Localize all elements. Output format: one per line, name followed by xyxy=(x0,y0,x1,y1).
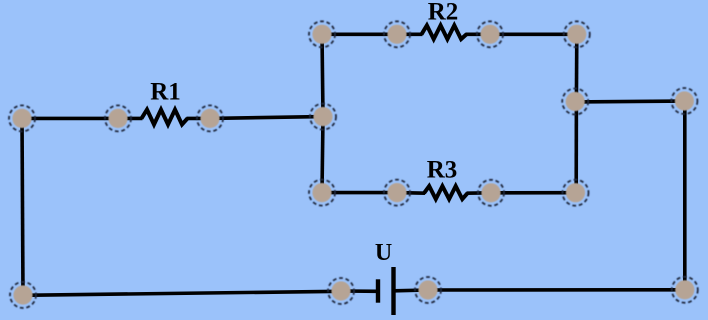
svg-text:U: U xyxy=(375,240,392,266)
svg-text:R2: R2 xyxy=(428,0,459,26)
svg-text:R1: R1 xyxy=(150,79,181,106)
svg-text:R3: R3 xyxy=(427,157,458,184)
